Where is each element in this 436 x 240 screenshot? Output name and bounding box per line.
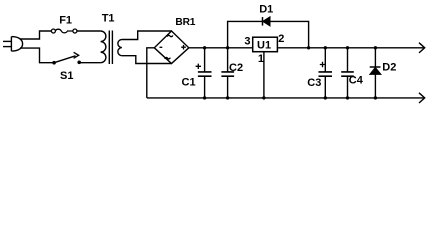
switch S1 left contact dot — [52, 61, 56, 65]
bridge minus sign — [160, 46, 163, 48]
bridge tilde top — [167, 35, 173, 36]
capacitor C3 plates — [319, 72, 333, 76]
diode D2 triangle — [370, 68, 380, 74]
capacitor C4 plates — [341, 72, 354, 76]
svg-text:D1: D1 — [259, 4, 273, 16]
junction dot D2 bottom — [374, 96, 377, 99]
wire switch to transformer primary — [79, 62, 100, 64]
diode D1 cathode bar — [262, 17, 264, 26]
bridge rectifier BR1 diamond — [154, 31, 189, 64]
svg-text:1: 1 — [258, 53, 264, 65]
capacitor C1 bottom lead — [204, 76, 206, 98]
svg-text:C4: C4 — [349, 75, 364, 87]
wire plug bottom lead — [20, 48, 54, 63]
diode D2 wire — [374, 48, 376, 98]
svg-text:F1: F1 — [59, 15, 72, 27]
switch S1 lever arrowhead — [74, 52, 79, 58]
capacitor C4 top lead — [347, 48, 349, 72]
diode D2 cathode bar — [370, 66, 381, 68]
AC plug prong top — [3, 40, 11, 42]
switch S1 lever — [54, 56, 75, 63]
capacitor C2 top lead — [227, 48, 229, 72]
junction dot C3 top — [324, 46, 327, 49]
capacitor C2 bottom lead — [227, 76, 229, 98]
junction dot D2 top — [374, 46, 377, 49]
AC plug prong bottom — [3, 46, 11, 48]
output arrow top rail — [419, 43, 425, 53]
junction dot C4 top — [346, 46, 349, 49]
wire secondary bottom lead to bridge — [122, 56, 172, 64]
junction dot C2/D1 top — [226, 46, 229, 49]
capacitor C4 bottom lead — [347, 76, 349, 98]
capacitor C3 top lead — [324, 48, 326, 72]
wire D1 branch riser left — [228, 21, 309, 47]
junction dot D1 right — [307, 46, 310, 49]
switch S1 right contact dot — [77, 61, 81, 65]
capacitor C1 top lead — [204, 48, 206, 72]
regulator U1 box — [253, 37, 278, 52]
fuse F1 right terminal circle — [73, 29, 77, 33]
svg-text:BR1: BR1 — [175, 17, 195, 28]
wire plug top lead — [20, 31, 51, 39]
capacitor C1 plus sign — [196, 64, 201, 69]
svg-text:2: 2 — [278, 33, 284, 45]
wire ground rail — [147, 97, 424, 99]
svg-text:C3: C3 — [307, 77, 321, 89]
svg-text:3: 3 — [244, 36, 250, 48]
junction dot C1 bottom — [203, 96, 206, 99]
junction dot C1 top — [203, 46, 206, 49]
junction dot C2 bottom — [226, 96, 229, 99]
transformer T1 secondary winding — [118, 40, 122, 56]
fuse F1 left terminal circle — [51, 29, 55, 33]
svg-text:U1: U1 — [257, 39, 271, 51]
svg-text:C2: C2 — [229, 62, 243, 74]
wire positive rail from U1 to output arrow — [277, 47, 423, 49]
wire bridge minus stub and down lead — [147, 48, 155, 98]
transformer T1 core line right — [111, 31, 113, 65]
capacitor C2 plates — [221, 72, 234, 76]
svg-text:T1: T1 — [102, 12, 115, 24]
AC plug body — [11, 37, 22, 52]
junction dot C3 bottom — [324, 96, 327, 99]
junction dot C4 bottom — [346, 96, 349, 99]
diode D1 triangle — [263, 17, 270, 25]
junction dot U1 ground — [262, 96, 265, 99]
wire positive rail from bridge to U1 — [189, 47, 253, 49]
wire fuse to transformer primary — [77, 30, 101, 32]
output arrow ground rail — [419, 93, 425, 103]
bridge tilde bottom — [165, 58, 171, 59]
svg-text:D2: D2 — [382, 61, 396, 73]
capacitor C1 plates — [198, 72, 212, 76]
fuse F1 wavy element — [55, 29, 73, 33]
transformer T1 primary winding — [101, 31, 106, 63]
capacitor C3 plus sign — [320, 62, 325, 67]
svg-text:C1: C1 — [182, 77, 196, 89]
capacitor C3 bottom lead — [324, 76, 326, 98]
transformer T1 core line left — [108, 31, 110, 65]
bridge plus sign — [181, 45, 186, 50]
regulator U1 ground lead pin 1 — [263, 52, 265, 98]
wire secondary top lead to bridge — [122, 31, 172, 40]
svg-text:S1: S1 — [60, 70, 73, 82]
